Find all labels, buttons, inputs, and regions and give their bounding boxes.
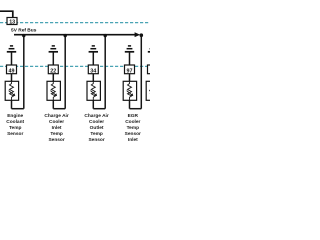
svg-text:Inlet: Inlet <box>52 125 62 131</box>
svg-text:Temp: Temp <box>90 131 103 137</box>
svg-text:Charge Air: Charge Air <box>44 113 68 119</box>
svg-text:Temp: Temp <box>9 125 22 131</box>
svg-text:Temp: Temp <box>50 131 63 137</box>
svg-text:Cooler: Cooler <box>49 119 64 125</box>
svg-text:13: 13 <box>9 20 15 26</box>
svg-text:Cooler: Cooler <box>125 119 140 125</box>
svg-text:Temp: Temp <box>127 125 140 131</box>
svg-text:Outlet: Outlet <box>90 125 104 131</box>
svg-text:Sensor: Sensor <box>7 131 23 137</box>
svg-text:Sensor: Sensor <box>48 137 64 143</box>
svg-text:Charge Air: Charge Air <box>84 113 108 119</box>
svg-text:Sensor: Sensor <box>125 131 141 137</box>
svg-text:Sensor: Sensor <box>88 137 104 143</box>
svg-text:Coolant: Coolant <box>6 119 24 125</box>
svg-text:Engine: Engine <box>7 113 23 119</box>
svg-text:5V Ref Bus: 5V Ref Bus <box>11 27 37 33</box>
svg-text:Inlet: Inlet <box>128 137 138 143</box>
svg-text:EGR: EGR <box>128 113 139 119</box>
svg-text:Cooler: Cooler <box>89 119 104 125</box>
